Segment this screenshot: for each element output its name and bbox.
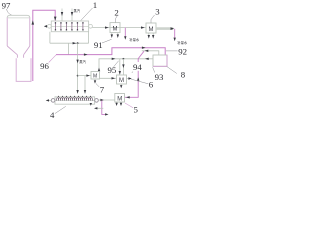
pump box 2 <box>110 23 120 33</box>
svg-text:蒸汽: 蒸汽 <box>74 8 81 13</box>
box93 magenta edges <box>153 55 167 66</box>
line box7 to box6 <box>100 77 117 79</box>
down arrow on that vertical <box>76 60 78 64</box>
line vessel1 to box2 <box>92 27 146 29</box>
grey stub with left arrow under outlet <box>95 107 103 109</box>
vessel 4 center line <box>55 99 95 101</box>
vessel 4 body <box>55 97 95 104</box>
inlet B down arrow <box>71 12 73 16</box>
svg-text:蒸汽: 蒸汽 <box>79 59 86 64</box>
leader 92 <box>166 50 178 52</box>
arrow into box7 <box>86 74 89 76</box>
vessel 1 left stub arrow <box>44 25 47 28</box>
hopper left side <box>6 18 8 46</box>
magenta flow arrow left <box>84 53 88 55</box>
box6 bottom stub <box>120 84 122 86</box>
box6 right line <box>127 78 132 80</box>
svg-text:91: 91 <box>94 40 103 50</box>
leader 8 <box>167 67 177 74</box>
svg-text:6: 6 <box>149 79 154 89</box>
header downleg to magenta main <box>68 43 70 54</box>
inlet A down arrow <box>61 12 63 16</box>
svg-text:M: M <box>119 78 124 84</box>
vessel 1 body <box>51 21 88 32</box>
svg-text:M: M <box>93 74 97 80</box>
box5 bottom stub 2 <box>120 102 122 104</box>
svg-text:97: 97 <box>2 0 11 10</box>
header flow arrow <box>73 42 77 44</box>
arrow into box2 <box>105 26 109 28</box>
leader 3 <box>151 15 155 23</box>
tank box 93 <box>153 55 167 66</box>
arrow into box5 right <box>126 96 130 98</box>
svg-text:92: 92 <box>178 47 187 57</box>
vessel4 outlet line to box5 <box>98 99 114 101</box>
leader 2 <box>116 16 118 23</box>
svg-text:1: 1 <box>93 0 97 10</box>
magenta tee down from outlet <box>102 101 106 115</box>
arrow right on header <box>112 58 116 60</box>
leader 5 magenta <box>125 103 133 108</box>
vessel 4 right shaft circle <box>95 99 99 103</box>
vessel 4 left shaft circle <box>51 99 55 103</box>
pump box 3 <box>146 23 156 33</box>
riser up arrow <box>32 20 35 24</box>
vessel 4 coil <box>57 98 93 101</box>
hopper funnel <box>7 46 30 55</box>
pump box 5 <box>115 94 125 103</box>
svg-text:7: 7 <box>100 84 105 94</box>
leader 6 <box>131 79 148 84</box>
vessel 1 top inlet stub A <box>61 9 63 22</box>
svg-text:补量水: 补量水 <box>129 37 140 42</box>
leader 94 <box>132 72 133 74</box>
vessel 1 top inlet stub B <box>71 9 73 22</box>
drop B into box 6 <box>122 59 124 75</box>
riser pipe (magenta) <box>33 10 55 81</box>
vessel 1 right shaft circle <box>89 24 93 28</box>
hopper right side <box>29 18 31 46</box>
hopper neck <box>17 55 23 58</box>
branch down to vessel4 second inlet <box>84 76 86 94</box>
svg-text:96: 96 <box>40 61 49 71</box>
return line from box93 top <box>142 51 159 55</box>
magenta branch to box 5 <box>125 51 145 97</box>
box2 bottom stub 1 <box>111 33 113 35</box>
svg-text:95: 95 <box>108 65 117 75</box>
header y59: riser from box7 <box>99 59 153 72</box>
svg-text:M: M <box>117 96 122 102</box>
svg-text:2: 2 <box>114 8 118 18</box>
feed down arrow into vessel 1 <box>54 17 57 21</box>
svg-text:8: 8 <box>181 69 186 79</box>
branch to box 7 <box>78 75 91 77</box>
vessel 1 left stub <box>44 25 48 27</box>
box2 bottom stub 2 <box>117 33 119 35</box>
bottom outlet arrow <box>105 113 108 115</box>
vessel1 bottom header: left leg <box>49 32 51 44</box>
junction dot on header <box>123 58 125 60</box>
header junction dot <box>77 42 79 44</box>
leader 93 <box>153 67 155 72</box>
outlet arrow 1 <box>100 99 103 101</box>
main magenta pipe 96 <box>56 48 165 55</box>
svg-text:M: M <box>149 27 154 33</box>
svg-text:M: M <box>113 27 118 33</box>
svg-text:5: 5 <box>134 105 139 115</box>
vertical from header to vessel 4 <box>77 43 79 93</box>
leader 97 <box>7 9 12 15</box>
svg-text:93: 93 <box>155 72 164 82</box>
magenta flow arrow right <box>142 47 146 49</box>
leader 1 <box>81 8 93 21</box>
arrow into box6 <box>112 77 116 79</box>
box5 bottom stub 1 <box>116 102 118 104</box>
leader 96 magenta <box>49 55 56 63</box>
arrow into box3 <box>141 26 145 28</box>
arrow left on return <box>145 50 149 52</box>
vessel 1 center line <box>51 25 88 27</box>
magenta drop far right <box>174 29 176 39</box>
thick outlet band right of box3 <box>156 27 173 30</box>
svg-text:4: 4 <box>50 110 55 120</box>
arrow left on header <box>145 58 149 60</box>
up arrow on magenta branch <box>137 77 139 81</box>
vessel4 inlet arrows <box>76 90 78 94</box>
leader 91 <box>102 39 112 43</box>
svg-text:94: 94 <box>133 62 142 72</box>
up arrow on box7 riser <box>98 68 100 72</box>
vessel 4 left stub <box>46 99 51 101</box>
hopper 97 body <box>7 15 30 18</box>
junction dot at box7 branch <box>77 75 79 77</box>
hopper interior line <box>8 17 29 19</box>
dark mark vessel4 bottom right <box>90 103 92 106</box>
box7 bottom stub <box>94 79 96 82</box>
vessel 1 left shaft circle <box>48 24 52 28</box>
header right leg <box>88 32 90 44</box>
leader 95 <box>114 61 119 67</box>
pump box 7 <box>91 72 100 80</box>
svg-text:3: 3 <box>155 7 160 17</box>
vessel 1 paddles <box>55 22 83 30</box>
band end arrow <box>171 27 175 30</box>
left stub arrow <box>46 99 49 101</box>
drop A into box 6 <box>119 59 121 75</box>
label 94 (white bg) <box>133 62 143 71</box>
svg-text:补量水: 补量水 <box>177 40 188 45</box>
box3 bottom stub 1 <box>148 33 150 36</box>
leader 4 <box>55 106 66 113</box>
magenta drop right of box 2 <box>124 28 126 37</box>
pump box 6 <box>117 75 127 84</box>
leader 7 <box>96 84 99 87</box>
elevator boot U below hopper <box>16 58 31 81</box>
vessel 1 paddle caps <box>55 22 84 30</box>
header horizontal <box>50 42 89 44</box>
box3 bottom stub 2 <box>152 33 154 36</box>
